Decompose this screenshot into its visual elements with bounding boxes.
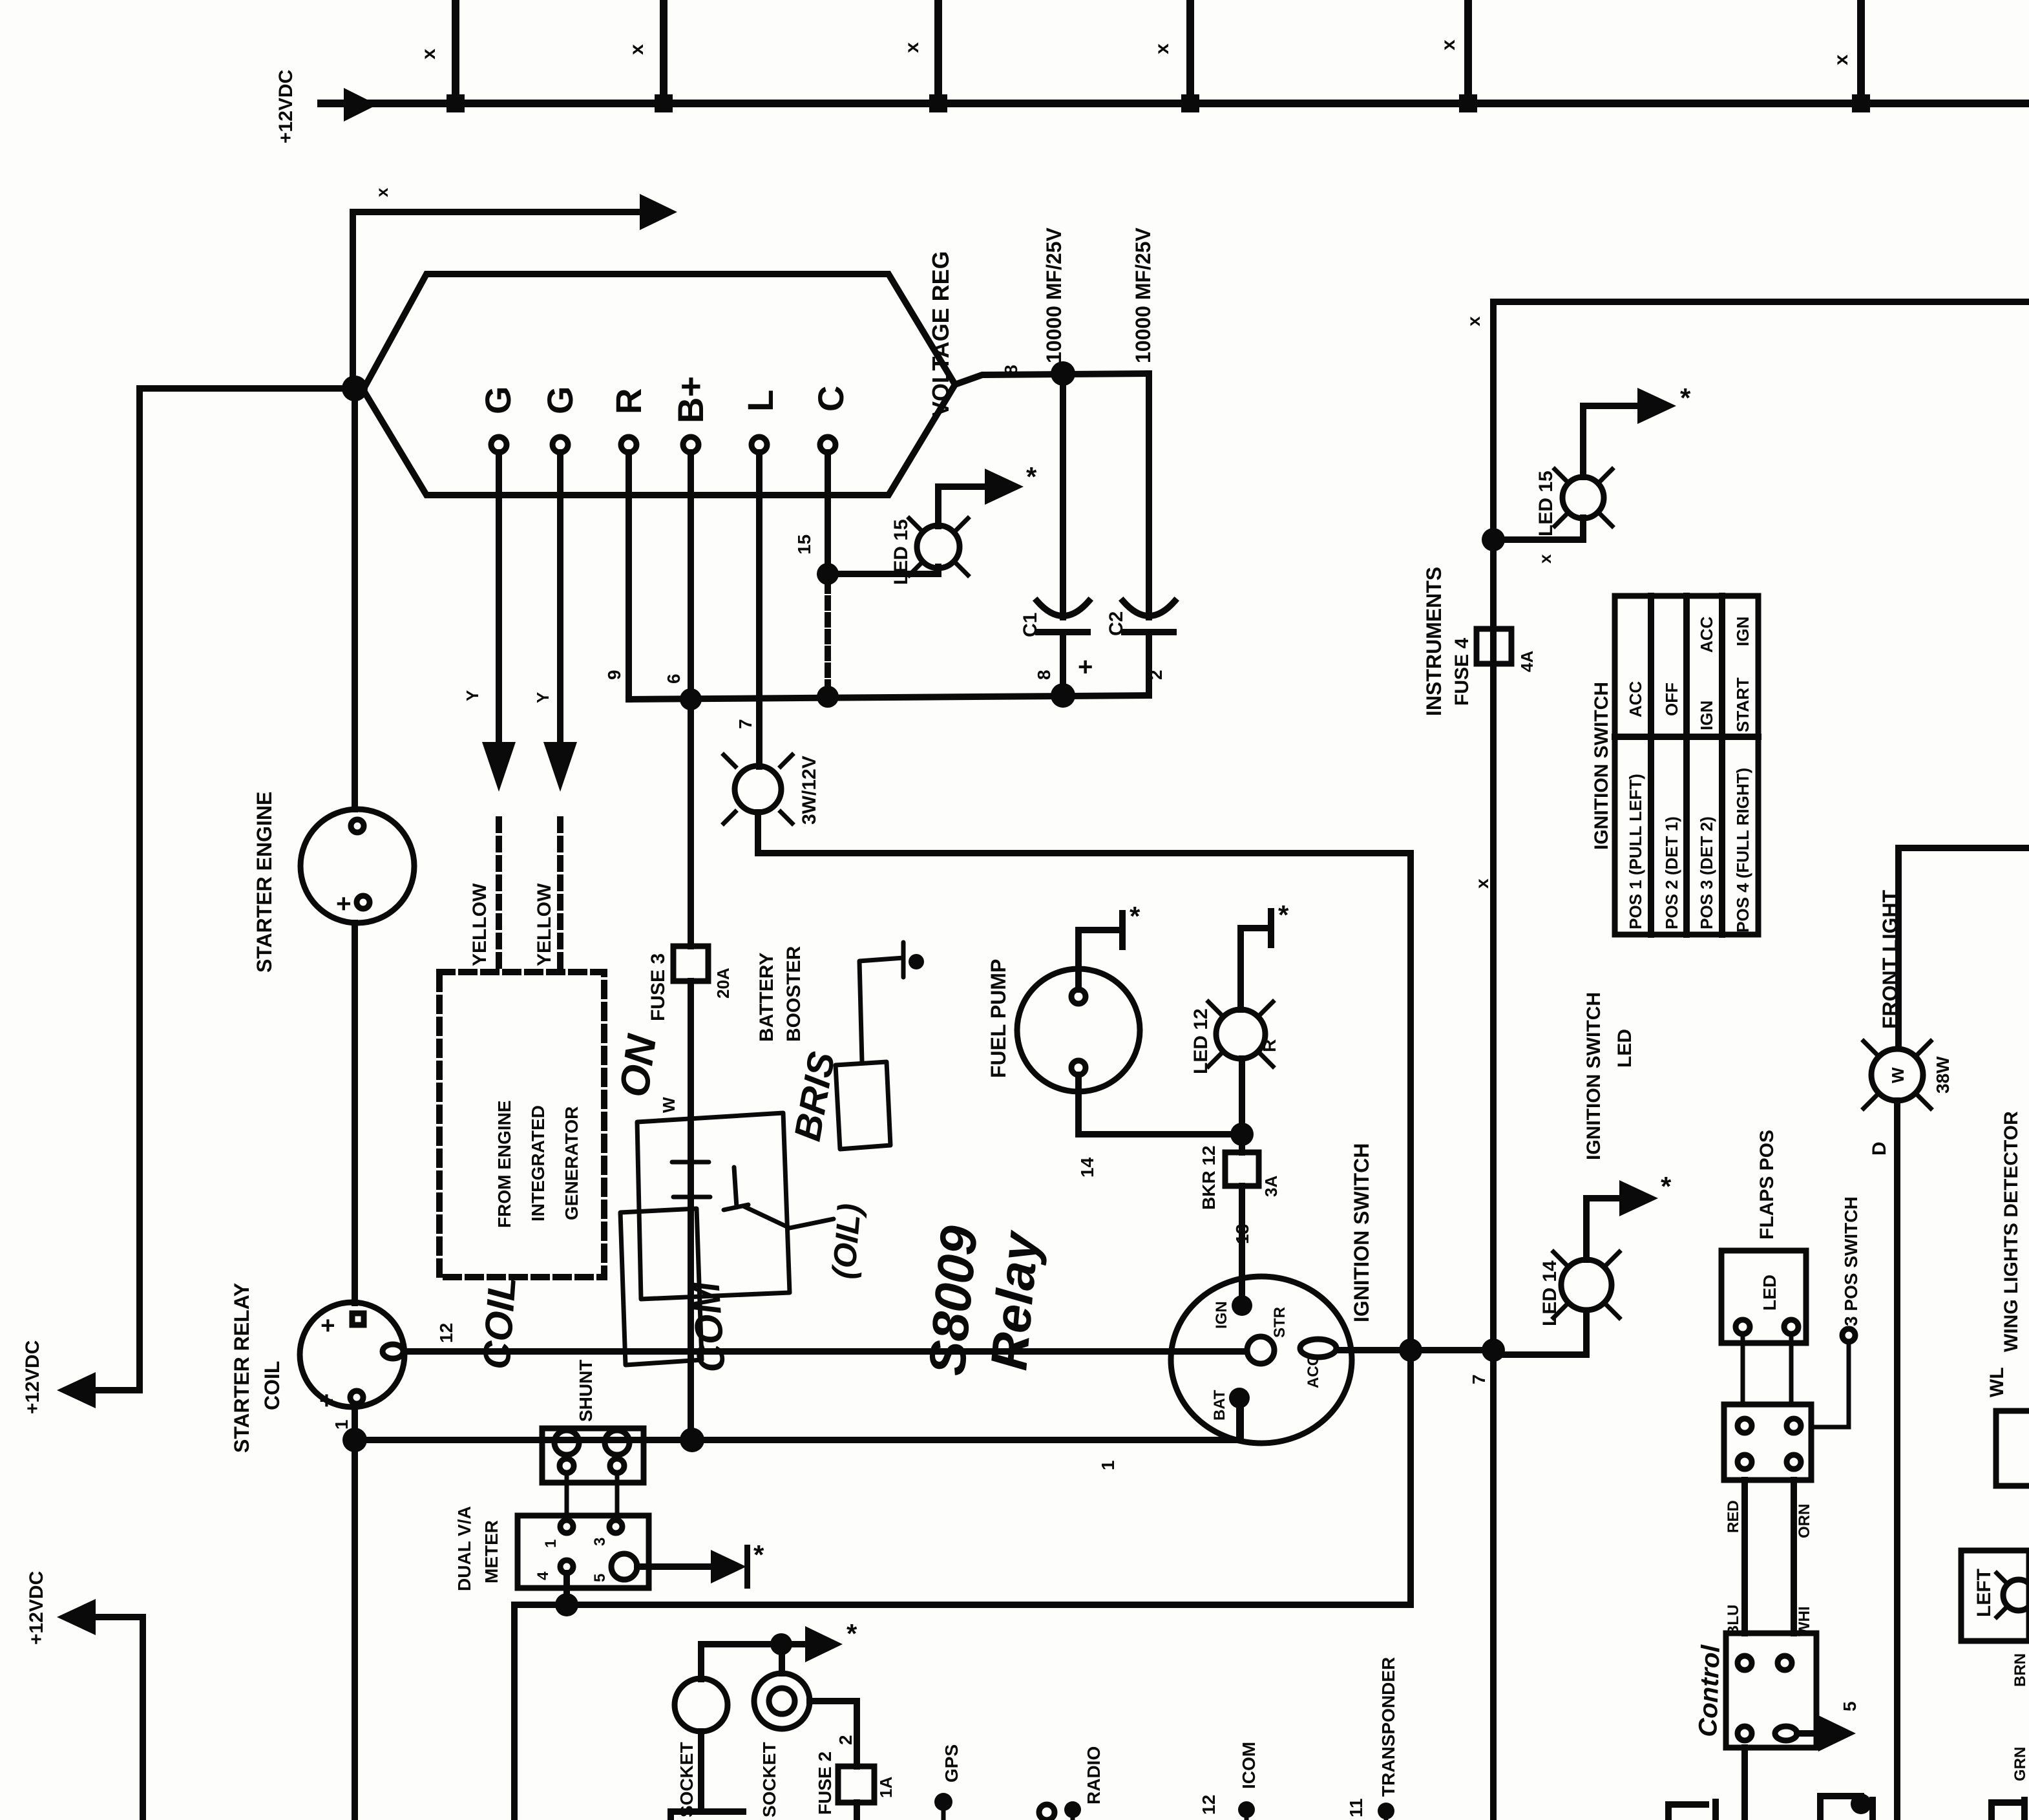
svg-text:POS 3 (DET 2): POS 3 (DET 2) — [1697, 816, 1716, 929]
svg-text:FROM ENGINE: FROM ENGINE — [494, 1100, 514, 1228]
node +12VDC bottom-left feed — [90, 1617, 143, 1820]
svg-text:11: 11 — [1346, 1798, 1366, 1817]
svg-text:*: * — [1130, 901, 1141, 931]
svg-text:7: 7 — [1469, 1374, 1489, 1384]
svg-text:IGN: IGN — [1733, 617, 1752, 646]
svg-text:D: D — [1869, 1141, 1890, 1156]
wire control to ground arrow 5 — [1797, 1730, 1822, 1737]
svg-text:10000 MF/25V: 10000 MF/25V — [1131, 227, 1155, 363]
LED 15 right indicator branch — [1482, 528, 1505, 551]
flaps 3-pos switch box — [1724, 1404, 1811, 1480]
svg-text:START: START — [1733, 677, 1752, 732]
svg-text:2: 2 — [836, 1735, 856, 1745]
svg-text:FUSE 4: FUSE 4 — [1451, 638, 1473, 706]
svg-text:G: G — [540, 386, 580, 414]
svg-text:4A: 4A — [1517, 651, 1537, 672]
svg-text:ACC: ACC — [1626, 681, 1645, 717]
svg-text:14: 14 — [1077, 1157, 1097, 1178]
wire regulator common rail — [629, 695, 1149, 699]
svg-text:LED 12: LED 12 — [1190, 1008, 1212, 1074]
svg-text:12: 12 — [1199, 1795, 1219, 1815]
svg-text:W: W — [1888, 1067, 1908, 1083]
svg-text:x: x — [1464, 316, 1484, 326]
svg-text:COM: COM — [684, 1279, 733, 1373]
svg-text:3A: 3A — [1261, 1176, 1281, 1197]
wire LED12 to ground — [1241, 928, 1268, 1010]
LEFT wing light box — [1961, 1550, 2029, 1641]
relay S8009 hand-drawn box — [637, 1113, 790, 1299]
svg-text:C1: C1 — [1020, 613, 1041, 637]
wire 12 relay to ignition switch — [405, 1348, 1246, 1355]
wire fuel pump to ground — [1078, 930, 1119, 989]
svg-text:x: x — [1438, 39, 1459, 50]
svg-text:IGN: IGN — [1697, 701, 1716, 730]
svg-text:+: + — [313, 1393, 341, 1408]
svg-text:x: x — [1535, 554, 1555, 564]
svg-text:IGNITION SWITCH: IGNITION SWITCH — [1583, 992, 1604, 1160]
RADIO pin — [1064, 1801, 1081, 1818]
svg-text:SOCKET: SOCKET — [677, 1742, 697, 1817]
svg-text:BOOSTER: BOOSTER — [783, 946, 804, 1042]
svg-text:LEFT: LEFT — [1973, 1569, 1995, 1617]
svg-text:YELLOW: YELLOW — [534, 883, 555, 966]
wire battery rail through shunt to ignition BAT — [355, 1406, 1241, 1440]
svg-text:FLAPS POS: FLAPS POS — [1756, 1130, 1778, 1240]
svg-text:ACC: ACC — [1305, 1355, 1322, 1388]
svg-text:Relay: Relay — [980, 1228, 1049, 1373]
wire starter to relay coil — [352, 923, 358, 1303]
svg-text:OFF: OFF — [1662, 682, 1681, 716]
svg-text:FUEL PUMP: FUEL PUMP — [987, 959, 1010, 1078]
dashed generator box — [439, 972, 604, 1277]
LED 14 branch — [1492, 1353, 1495, 1356]
connector stub bottom right — [1992, 1803, 2021, 1820]
breaker BKR12 3A — [1225, 1152, 1259, 1186]
svg-text:METER: METER — [481, 1520, 501, 1583]
wire fuel pump 14 to LED12 node — [1078, 1075, 1232, 1134]
svg-text:LED 14: LED 14 — [1539, 1260, 1561, 1326]
connector stub bottom left — [671, 1812, 743, 1820]
wire regulator right vertex to capacitor bank — [955, 374, 1149, 385]
voltage regulator U1 body — [363, 274, 955, 495]
front light feeder — [1898, 848, 2029, 1048]
svg-text:W: W — [659, 1097, 678, 1113]
svg-text:1: 1 — [1098, 1460, 1118, 1470]
svg-text:ACC: ACC — [1697, 616, 1716, 653]
wire shunt to meter — [565, 1473, 569, 1520]
wire LED14 to ground arrow — [1586, 1198, 1623, 1260]
wire socket2 to fuse2 — [810, 1701, 857, 1766]
wire G2 output arrow down — [557, 452, 563, 743]
svg-text:LED: LED — [1614, 1029, 1635, 1068]
svg-text:STR: STR — [1271, 1307, 1288, 1338]
fuse F2 — [838, 1766, 874, 1803]
wire LED15 to ground arrow — [938, 487, 989, 526]
svg-text:LED 15: LED 15 — [890, 519, 912, 585]
wire R pin 9 down to node — [626, 452, 632, 699]
svg-text:20A: 20A — [713, 968, 733, 999]
svg-text:STARTER RELAY: STARTER RELAY — [230, 1283, 253, 1453]
wire instruments feeder from right edge — [1493, 302, 2029, 1820]
wire G2 dashed yellow continuation — [557, 820, 563, 972]
svg-text:IGN: IGN — [1213, 1301, 1230, 1329]
svg-text:BKR 12: BKR 12 — [1199, 1145, 1219, 1210]
svg-text:x: x — [901, 42, 923, 53]
svg-text:COIL: COIL — [260, 1361, 284, 1410]
wire flaps switch to control RED — [1741, 1480, 1748, 1633]
wire C dashed to rail — [825, 582, 831, 695]
svg-text:*: * — [1680, 383, 1691, 413]
svg-text:FUSE 3: FUSE 3 — [647, 953, 669, 1021]
svg-text:3W/12V: 3W/12V — [799, 756, 820, 825]
wire breaker to LED12 node — [1239, 1134, 1245, 1152]
LED 12 indicator — [1239, 1059, 1245, 1134]
capacitor C2 plates — [1123, 601, 1175, 616]
wire front light down — [1894, 1101, 1900, 1820]
wire ignition BAT drop — [1236, 1398, 1243, 1440]
svg-text:38W: 38W — [1933, 1056, 1953, 1094]
svg-text:3 POS SWITCH: 3 POS SWITCH — [1841, 1196, 1861, 1326]
lower rail node to sockets — [701, 1644, 781, 1679]
svg-text:+12VDC: +12VDC — [26, 1571, 47, 1645]
capacitor C1 plates — [1037, 601, 1089, 616]
wire bus drop 5 — [1464, 0, 1472, 103]
svg-text:Y: Y — [533, 692, 552, 703]
starter engine motor M1 — [300, 809, 414, 923]
wire B+ pin 6 down through node — [688, 452, 694, 946]
fuel pump motor — [1017, 969, 1140, 1092]
svg-text:POS 1 (PULL LEFT): POS 1 (PULL LEFT) — [1626, 774, 1645, 929]
svg-text:FRONT LIGHT: FRONT LIGHT — [1878, 889, 1902, 1029]
wire bus drop 3 — [934, 0, 942, 103]
wire flaps LED to switch — [1741, 1334, 1745, 1404]
svg-text:POS 2 (DET 1): POS 2 (DET 1) — [1662, 816, 1681, 929]
svg-text:VOLTAGE REG: VOLTAGE REG — [927, 251, 954, 417]
capacitor C2 lead — [1146, 374, 1152, 617]
wire meter pin4 to lower rail — [563, 1573, 570, 1605]
svg-text:*: * — [1661, 1171, 1672, 1201]
ignition switch S1 body — [1171, 1276, 1352, 1443]
svg-text:R: R — [608, 388, 649, 414]
wire regulator vertex down to starter — [352, 388, 358, 809]
wire bus drop 2 — [660, 0, 668, 103]
svg-text:WL: WL — [1986, 1367, 2008, 1397]
3 pos switch pin and label — [1842, 1329, 1855, 1342]
WL detector box — [1996, 1411, 2029, 1486]
LEFT lamp symbol — [2003, 1580, 2029, 1611]
wire bus drop 1 — [452, 0, 459, 103]
svg-text:7: 7 — [735, 719, 755, 729]
socket 1 — [675, 1678, 728, 1731]
wire flaps switch to control WHI — [1791, 1480, 1797, 1633]
svg-text:6: 6 — [664, 673, 684, 684]
svg-text:YELLOW: YELLOW — [469, 883, 490, 966]
svg-text:RED: RED — [1725, 1500, 1742, 1533]
svg-text:TRANSPONDER: TRANSPONDER — [1378, 1657, 1398, 1797]
ignition switch IGN pin — [1232, 1295, 1252, 1316]
wire G1 dashed yellow continuation — [496, 820, 502, 972]
wire fuse3 down through relay — [688, 981, 694, 1440]
svg-text:ICOM: ICOM — [1239, 1742, 1259, 1789]
svg-text:x: x — [1831, 54, 1852, 65]
svg-text:BRN: BRN — [2012, 1653, 2029, 1687]
wire relay bottom to shunt rail — [352, 1407, 358, 1820]
socket 2 cigarette — [754, 1673, 810, 1729]
svg-text:STARTER ENGINE: STARTER ENGINE — [253, 792, 276, 973]
svg-text:1: 1 — [331, 1419, 352, 1430]
svg-text:SHUNT: SHUNT — [576, 1360, 596, 1422]
svg-text:12: 12 — [436, 1323, 456, 1343]
svg-text:C2: C2 — [1106, 611, 1127, 636]
svg-text:+: + — [330, 896, 358, 911]
svg-text:15: 15 — [794, 534, 814, 555]
svg-text:ON: ON — [611, 1031, 666, 1100]
svg-text:(OIL): (OIL) — [825, 1202, 868, 1280]
svg-text:R: R — [1259, 1039, 1279, 1052]
svg-text:1A: 1A — [876, 1777, 896, 1798]
svg-text:LED 15: LED 15 — [1535, 471, 1557, 536]
GPS pin — [934, 1793, 952, 1811]
ignition switch BAT pin — [1229, 1388, 1250, 1408]
wire bus drop 4 — [1186, 0, 1194, 103]
wire meter to ground arrow — [637, 1563, 714, 1570]
wire left feed riser — [140, 385, 353, 392]
svg-text:*: * — [1278, 900, 1289, 930]
wire bus drop 6 — [1857, 0, 1865, 103]
svg-text:+12VDC: +12VDC — [22, 1340, 43, 1414]
shunt block — [542, 1428, 644, 1483]
fuse F4 instruments — [1477, 629, 1511, 664]
svg-text:IGNITION SWITCH: IGNITION SWITCH — [1350, 1143, 1373, 1322]
svg-text:POS 4 (FULL RIGHT): POS 4 (FULL RIGHT) — [1733, 768, 1752, 933]
svg-text:B+: B+ — [670, 376, 711, 423]
flaps pos LED box — [1721, 1251, 1806, 1343]
svg-text:Control: Control — [1694, 1644, 1725, 1738]
svg-text:IGNITION SWITCH: IGNITION SWITCH — [1591, 682, 1612, 850]
svg-text:8: 8 — [1034, 670, 1054, 680]
wire +12VDC top bus — [321, 100, 2029, 107]
svg-text:+12VDC: +12VDC — [275, 70, 297, 143]
BRIS resistor hand-drawn — [836, 1062, 890, 1149]
svg-text:*: * — [1026, 461, 1037, 492]
svg-text:GRN: GRN — [2012, 1747, 2029, 1781]
svg-text:INSTRUMENTS: INSTRUMENTS — [1422, 567, 1446, 716]
svg-text:BATTERY: BATTERY — [756, 953, 777, 1042]
svg-text:SOCKET: SOCKET — [759, 1742, 779, 1817]
svg-text:*: * — [846, 1618, 857, 1649]
connector stub bottom center — [1668, 1804, 1706, 1820]
wire G1 output arrow down — [496, 452, 502, 743]
svg-text:5: 5 — [1840, 1701, 1860, 1711]
svg-text:*: * — [753, 1540, 764, 1570]
svg-text:1: 1 — [542, 1540, 560, 1548]
ignition switch position table — [1615, 596, 1758, 935]
ignition switch STR center pin — [1247, 1337, 1274, 1364]
wire LED15b to ground arrow — [1583, 406, 1641, 477]
svg-text:LED: LED — [1760, 1275, 1780, 1311]
svg-text:+: + — [1078, 653, 1093, 681]
wire C pin 15 down — [825, 452, 831, 574]
svg-text:3: 3 — [591, 1538, 609, 1546]
wire regulator feed stub to engine arrow — [353, 212, 646, 388]
svg-text:5: 5 — [591, 1574, 609, 1582]
wire L pin 7 to panel lamp — [756, 452, 762, 767]
svg-text:C: C — [810, 386, 851, 412]
lamp 3W/12V — [735, 766, 781, 812]
relay contacts — [672, 1128, 710, 1299]
svg-text:COIL: COIL — [474, 1275, 524, 1371]
svg-text:ORN: ORN — [1796, 1504, 1813, 1538]
svg-text:RADIO: RADIO — [1084, 1746, 1104, 1804]
wire lamp to inner loop — [514, 812, 1411, 1820]
svg-text:GENERATOR: GENERATOR — [562, 1106, 582, 1220]
start relay coil K1 — [300, 1302, 405, 1407]
svg-text:Y: Y — [463, 690, 482, 701]
ICOM pin — [1238, 1801, 1255, 1818]
svg-text:10000 MF/25V: 10000 MF/25V — [1042, 227, 1066, 363]
wire left vertical to lower +12VDC arrow — [90, 388, 140, 1390]
wire sockets ground arrow — [781, 1641, 809, 1647]
svg-text:FUSE 2: FUSE 2 — [815, 1751, 835, 1815]
ignition switch ACC pin — [1300, 1339, 1336, 1357]
fuse F3 battery 20A — [673, 946, 708, 981]
wire ignition IGN up to breaker — [1239, 1186, 1245, 1306]
svg-text:4: 4 — [534, 1571, 552, 1580]
wire socket1 down — [698, 1731, 704, 1812]
wire ACC to instruments junction — [1341, 1347, 1493, 1353]
TRANSPONDER pin — [1378, 1803, 1394, 1819]
svg-text:13: 13 — [1232, 1224, 1252, 1244]
svg-text:+: + — [315, 1318, 342, 1333]
dual V/A meter — [518, 1516, 649, 1588]
svg-text:2: 2 — [1146, 670, 1166, 680]
control box — [1726, 1633, 1816, 1748]
svg-text:x: x — [1151, 43, 1173, 54]
wire control down to connector — [1741, 1748, 1748, 1820]
front light lamp 38W — [1871, 1049, 1923, 1101]
LED 15 left indicator — [828, 567, 938, 574]
svg-text:x: x — [1472, 878, 1492, 889]
svg-text:G: G — [478, 386, 518, 414]
svg-text:9: 9 — [604, 670, 624, 680]
svg-text:x: x — [626, 44, 647, 55]
svg-text:x: x — [372, 187, 392, 197]
capacitor C1 lead — [1060, 374, 1066, 617]
svg-text:DUAL V/A: DUAL V/A — [454, 1506, 474, 1591]
svg-text:BAT: BAT — [1211, 1390, 1228, 1421]
svg-text:L: L — [740, 390, 781, 412]
connector stub bottom mid-right — [1820, 1796, 1861, 1820]
svg-text:x: x — [418, 48, 439, 59]
svg-text:GPS: GPS — [941, 1744, 962, 1783]
svg-text:INTEGRATED: INTEGRATED — [528, 1105, 548, 1222]
svg-text:WING LIGHTS DETECTOR: WING LIGHTS DETECTOR — [2001, 1111, 2022, 1352]
